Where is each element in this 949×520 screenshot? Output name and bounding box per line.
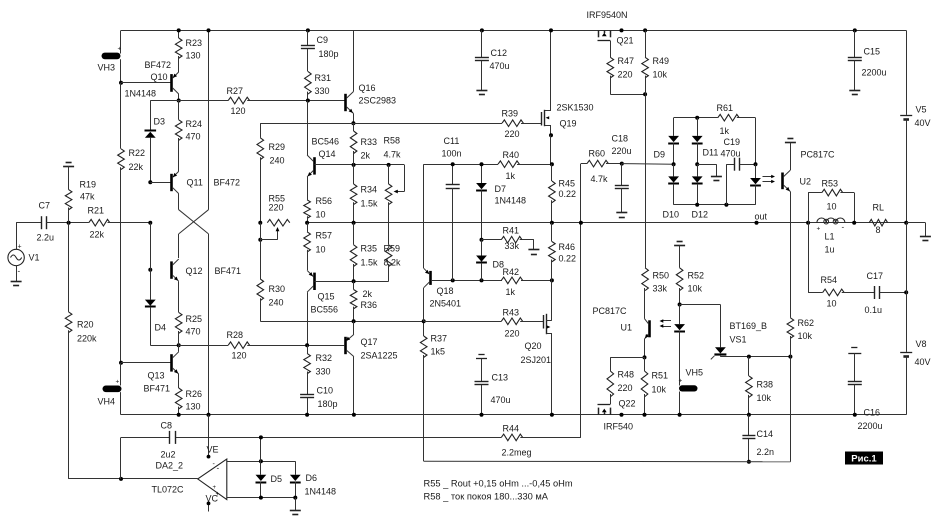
- svg-text:VS1: VS1: [730, 335, 747, 345]
- diode D5: [260, 461, 262, 475]
- node dot bottom rail x208: [207, 413, 211, 417]
- wire op-amp minus input row: [227, 461, 295, 463]
- svg-text:470u: 470u: [491, 395, 511, 405]
- svg-text:2k: 2k: [363, 289, 373, 299]
- resistor R24 470: [175, 120, 182, 140]
- svg-text:VE: VE: [207, 445, 219, 455]
- wire R52 to LED node: [679, 288, 681, 305]
- wire R27 row: [150, 100, 228, 102]
- svg-text:240: 240: [269, 298, 284, 308]
- node dot R47 R49 junction: [643, 92, 647, 96]
- wire bridge bottom row: [674, 204, 756, 206]
- wire VH4 to bottom rail corner: [120, 392, 122, 415]
- svg-text:R47: R47: [618, 56, 635, 66]
- wire R21 to base line: [108, 222, 151, 224]
- svg-text:2200u: 2200u: [858, 421, 883, 431]
- node dot R38 top: [747, 355, 751, 359]
- capacitor C9 180p: [306, 28, 310, 32]
- resistor R39 220: [502, 120, 523, 127]
- wire mid output rail: [307, 222, 925, 224]
- svg-text:220: 220: [618, 70, 633, 80]
- node dot R26 bottom rail: [177, 413, 181, 417]
- svg-text:VH3: VH3: [98, 63, 116, 73]
- wire R30 to y321 row: [260, 298, 262, 321]
- wire D5 line to C8 row: [260, 437, 262, 461]
- resistor R20 220k: [68, 223, 70, 312]
- svg-text:22k: 22k: [129, 162, 144, 172]
- svg-text:2u2: 2u2: [161, 450, 176, 460]
- svg-text:Q22: Q22: [619, 399, 636, 409]
- node dot C11 bottom: [451, 278, 455, 282]
- node dot rail x621: [620, 28, 624, 32]
- resistor R34 1.5k: [350, 184, 357, 205]
- svg-text:R54: R54: [821, 275, 838, 285]
- node dot D11 top: [695, 116, 699, 120]
- svg-text:U2: U2: [800, 177, 812, 187]
- mosfet Q20 2SJ201: [543, 315, 545, 329]
- resistor R28 120: [228, 342, 249, 349]
- node dot R56 R57 output-row start: [305, 221, 309, 225]
- wire R43 row: [424, 321, 502, 323]
- svg-text:PC817C: PC817C: [593, 306, 628, 316]
- svg-text:IRF9540N: IRF9540N: [587, 10, 628, 20]
- svg-text:C9: C9: [317, 35, 329, 45]
- ground right of RL: [906, 222, 925, 224]
- svg-text:V1: V1: [29, 253, 40, 263]
- pin VE: [208, 415, 210, 457]
- resistor R19 47k: [65, 190, 72, 210]
- svg-text:R37: R37: [431, 334, 448, 344]
- svg-text:8.2k: 8.2k: [384, 258, 402, 268]
- svg-text:10k: 10k: [798, 331, 813, 341]
- node dot Q12 base: [148, 268, 152, 272]
- capacitor C10 180p: [300, 394, 314, 396]
- resistor R61 1k: [718, 114, 739, 121]
- svg-text:R58 _ ток покоя 180...330 мА: R58 _ ток покоя 180...330 мА: [424, 492, 549, 502]
- wire crossing X right diagonal: [179, 210, 209, 234]
- svg-text:+: +: [18, 243, 22, 250]
- svg-text:Q12: Q12: [186, 266, 203, 276]
- svg-text:1k: 1k: [506, 171, 516, 181]
- svg-text:R50: R50: [653, 271, 670, 281]
- node dot C11 top: [451, 162, 455, 166]
- svg-text:40V: 40V: [915, 118, 931, 128]
- svg-text:C17: C17: [867, 271, 884, 281]
- LED VH5: [679, 385, 698, 391]
- resistor R38 10k: [748, 357, 750, 376]
- svg-text:1N4148: 1N4148: [305, 487, 337, 497]
- resistor R40 1k: [498, 161, 519, 168]
- phototransistor U2 PC817C: [781, 173, 784, 190]
- resistor R57 10: [304, 232, 311, 252]
- node dot C10 bottom rail: [305, 413, 309, 417]
- svg-text:10: 10: [827, 299, 837, 309]
- svg-text:R58: R58: [384, 136, 401, 146]
- svg-text:R45: R45: [559, 179, 576, 189]
- svg-text:R42: R42: [503, 267, 520, 277]
- svg-text:C10: C10: [317, 386, 334, 396]
- ground above R52: [677, 241, 683, 243]
- wire C7 to node: [46, 222, 89, 224]
- capacitor C19 470u: [726, 164, 728, 205]
- svg-text:120: 120: [232, 351, 247, 361]
- node dot U1 emitter R51: [643, 355, 647, 359]
- diode D3 1N4148: [150, 101, 152, 131]
- svg-text:R20: R20: [77, 320, 94, 330]
- resistor R43 220: [501, 318, 522, 325]
- diode D12: [697, 164, 699, 176]
- svg-text:2N5401: 2N5401: [430, 299, 462, 309]
- wire Q18 base row: [431, 280, 502, 282]
- svg-text:D7: D7: [495, 184, 507, 194]
- diode D8: [481, 240, 483, 256]
- wire R31 to Q14 collector: [307, 101, 309, 156]
- node dot C8 row D5: [259, 435, 263, 439]
- svg-text:R48: R48: [618, 370, 635, 380]
- wire R54 C17 row: [808, 223, 810, 293]
- capacitor C8 2u2: [169, 431, 171, 444]
- svg-text:IRF540: IRF540: [604, 422, 634, 432]
- svg-text:R39: R39: [502, 109, 519, 119]
- resistor R46 0.22: [549, 242, 556, 262]
- svg-text:Q16: Q16: [359, 83, 376, 93]
- resistor R31 330: [307, 49, 309, 72]
- svg-text:180p: 180p: [319, 49, 339, 59]
- node dot C17 V8 line: [904, 290, 908, 294]
- node dot R62 bottom VS1 row: [788, 355, 792, 359]
- svg-text:BF472: BF472: [145, 60, 172, 70]
- svg-text:220: 220: [269, 203, 284, 213]
- svg-text:100n: 100n: [442, 149, 462, 159]
- svg-text:R21: R21: [88, 206, 105, 216]
- svg-text:R44: R44: [503, 424, 520, 434]
- opto arrows U1: [662, 320, 672, 322]
- svg-text:BF472: BF472: [214, 178, 241, 188]
- svg-text:D3: D3: [154, 117, 166, 127]
- svg-text:120: 120: [231, 106, 246, 116]
- transistor Q15 BC556: [313, 273, 316, 290]
- node dot C13 bottom rail: [480, 413, 484, 417]
- node dot C19 right U2-LED top: [754, 162, 758, 166]
- svg-text:10k: 10k: [688, 284, 703, 294]
- svg-text:R41: R41: [503, 226, 520, 236]
- svg-text:2.2u: 2.2u: [37, 233, 55, 243]
- svg-text:R46: R46: [559, 242, 576, 252]
- wire R59 corner: [388, 264, 390, 281]
- ground stub D11: [697, 164, 716, 166]
- node dot L1 right R53: [852, 221, 856, 225]
- resistor R44 2.2meg: [501, 434, 522, 441]
- svg-text:BF471: BF471: [144, 384, 171, 394]
- svg-text:470: 470: [186, 327, 201, 337]
- node dot R35 R36 Q15-base: [352, 279, 356, 283]
- transistor Q13 BF471: [170, 354, 173, 371]
- LED VH3: [120, 30, 122, 53]
- svg-text:+: +: [213, 485, 217, 491]
- wire R28 row: [179, 345, 229, 347]
- source V1: [8, 249, 24, 265]
- svg-text:Q11: Q11: [187, 178, 203, 188]
- svg-text:R36: R36: [361, 300, 378, 310]
- svg-text:1.5k: 1.5k: [361, 199, 379, 209]
- battery V8 40V: [906, 223, 908, 293]
- wire R39 row to Q19 gate: [260, 123, 502, 125]
- LED of optocoupler U1: [679, 305, 681, 325]
- node dot R21 base-line junction: [148, 221, 152, 225]
- svg-text:R62: R62: [798, 318, 815, 328]
- LED of optocoupler U2: [755, 164, 757, 178]
- svg-text:R61: R61: [717, 103, 734, 113]
- node dot R23 top: [177, 28, 181, 32]
- phototransistor U1 PC817C: [648, 320, 651, 337]
- svg-text:R55 _ Rout +0,15 oHm ...-0,45: R55 _ Rout +0,15 oHm ...-0,45 oHm: [424, 479, 573, 489]
- diode D9: [673, 118, 675, 136]
- node dot VH5 bottom rail: [678, 413, 682, 417]
- node dot op-amp output C8 line: [119, 477, 123, 481]
- svg-text:D11: D11: [703, 148, 719, 158]
- svg-text:C15: C15: [864, 47, 881, 57]
- svg-text:R43: R43: [503, 308, 520, 318]
- svg-text:BF471: BF471: [215, 266, 242, 276]
- svg-text:470u: 470u: [490, 61, 510, 71]
- svg-text:220u: 220u: [612, 146, 632, 156]
- wire V1 to C7: [16, 223, 18, 250]
- node dot Q10 emitter R24 R27: [177, 99, 181, 103]
- svg-text:R38: R38: [757, 380, 774, 390]
- svg-text:2.2meg: 2.2meg: [502, 448, 532, 458]
- svg-text:VH5: VH5: [686, 368, 704, 378]
- svg-text:10: 10: [316, 210, 326, 220]
- node dot Q10 base: [119, 81, 123, 85]
- svg-text:D4: D4: [155, 323, 167, 333]
- resistor R35 1.5k: [350, 245, 357, 267]
- wire R41 row: [482, 239, 502, 241]
- node dot Q19 drain rail: [549, 28, 553, 32]
- wire Q12 collector: [178, 234, 180, 258]
- svg-text:R33: R33: [361, 137, 378, 147]
- svg-text:1k: 1k: [506, 287, 516, 297]
- resistor R54 10: [823, 289, 844, 296]
- node dot D5 top: [259, 459, 263, 463]
- wire Q14 base row: [315, 164, 405, 166]
- diode D11: [697, 118, 699, 136]
- potentiometer R55 220: [267, 219, 290, 226]
- node dot D7 top: [480, 162, 484, 166]
- node dot R31 bottom R27: [306, 99, 310, 103]
- svg-text:220: 220: [618, 383, 633, 393]
- capacitor C14 2.2n: [748, 415, 750, 436]
- svg-text:220k: 220k: [77, 334, 97, 344]
- svg-text:22k: 22k: [90, 230, 105, 240]
- resistor R23 130: [178, 30, 180, 38]
- transistor Q11 BF472: [170, 174, 173, 191]
- resistor R41 33k: [501, 236, 522, 243]
- node dot rail x208: [207, 28, 211, 32]
- svg-text:C19: C19: [724, 137, 741, 147]
- wire bridge top row: [674, 117, 718, 119]
- node dot C14 bottom feedback row: [747, 460, 751, 464]
- capacitor C15 2200u: [853, 28, 857, 32]
- node dot rail x621 bottom: [620, 413, 624, 417]
- wire top positive rail: [121, 30, 906, 32]
- svg-text:PC817C: PC817C: [801, 150, 836, 160]
- wire R20 to op-amp output: [68, 330, 70, 479]
- diode D7 1N4148: [481, 164, 483, 183]
- wire R42-node to Q20 drain: [551, 280, 553, 320]
- svg-text:8: 8: [876, 225, 881, 235]
- capacitor C17 0.1u: [874, 286, 876, 299]
- thyristor VS1 BT169_B: [715, 347, 726, 353]
- node dot D7 R41: [480, 238, 484, 242]
- svg-text:C11: C11: [444, 136, 460, 146]
- resistor R51 10k: [644, 357, 646, 371]
- svg-text:+: +: [817, 226, 821, 233]
- resistor R52 10k: [676, 268, 683, 291]
- node dot D12 bottom: [695, 203, 699, 207]
- svg-text:D12: D12: [692, 210, 709, 220]
- ground below V1: [16, 266, 18, 282]
- svg-text:470u: 470u: [721, 149, 741, 159]
- resistor R33 2k: [350, 131, 357, 154]
- svg-text:-: -: [217, 464, 220, 473]
- svg-text:0.22: 0.22: [559, 254, 577, 264]
- svg-text:1.5k: 1.5k: [361, 258, 379, 268]
- wire C8 R44 row: [121, 437, 169, 439]
- mosfet Q22 IRF540: [610, 394, 612, 404]
- transistor Q14 BC546: [313, 157, 316, 174]
- node dot R38 bottom rail: [747, 413, 751, 417]
- svg-text:RL: RL: [873, 203, 885, 213]
- svg-text:C7: C7: [39, 201, 51, 211]
- ground above R19: [66, 162, 72, 164]
- wire R40 row: [424, 164, 498, 166]
- svg-text:VC: VC: [206, 494, 219, 504]
- wire R55 wiper: [277, 230, 279, 240]
- node dot Q17 bottom rail: [352, 413, 356, 417]
- transistor Q18 2N5401: [429, 271, 432, 285]
- wire long vertical x208: [208, 30, 210, 209]
- transistor Q17 2SA1225: [344, 337, 347, 354]
- svg-text:130: 130: [186, 402, 201, 412]
- node dot D4 R25 R28 Q13: [177, 343, 181, 347]
- svg-text:C13: C13: [492, 373, 509, 383]
- wire Q15 base row: [315, 281, 389, 283]
- node dot R19 bottom: [67, 221, 71, 225]
- svg-text:R40: R40: [503, 150, 520, 160]
- svg-text:D6: D6: [306, 473, 318, 483]
- opto arrows U2: [763, 176, 774, 178]
- svg-text:Q10: Q10: [151, 72, 168, 82]
- resistor R42 1k: [501, 277, 522, 284]
- resistor R21 22k: [89, 219, 110, 226]
- wire R58 wiper: [404, 165, 406, 192]
- node dot out: [755, 221, 759, 225]
- wire VH3 to Q10 base node: [120, 59, 122, 83]
- svg-text:D5: D5: [271, 474, 283, 484]
- node dot R34 R35 output row: [352, 221, 356, 225]
- svg-text:R60: R60: [589, 149, 606, 159]
- svg-text:U1: U1: [621, 323, 633, 333]
- svg-text:R29: R29: [269, 142, 286, 152]
- wire C8 left leg: [120, 437, 122, 479]
- node dot D11 mid: [695, 162, 699, 166]
- svg-text:330: 330: [315, 86, 330, 96]
- svg-text:10: 10: [316, 245, 326, 255]
- svg-text:Рис.1: Рис.1: [851, 454, 877, 465]
- svg-text:R28: R28: [227, 330, 244, 340]
- resistor R37 1k5: [420, 336, 427, 357]
- svg-text:220: 220: [505, 129, 520, 139]
- node dot D8 bottom: [480, 278, 484, 282]
- mosfet Q21 IRF9540N: [598, 30, 600, 37]
- svg-text:L1: L1: [825, 232, 835, 242]
- svg-text:Q18: Q18: [437, 286, 454, 296]
- svg-text:-: -: [842, 223, 845, 232]
- svg-text:10k: 10k: [653, 70, 668, 80]
- svg-text:Q21: Q21: [617, 36, 634, 46]
- svg-text:240: 240: [270, 156, 285, 166]
- svg-text:33k: 33k: [505, 241, 520, 251]
- capacitor C11 100n: [452, 164, 454, 185]
- svg-text:TL072C: TL072C: [152, 485, 185, 495]
- svg-text:C8: C8: [161, 421, 173, 431]
- svg-text:0.22: 0.22: [559, 189, 577, 199]
- svg-text:R31: R31: [315, 73, 332, 83]
- capacitor C7 2.2u: [41, 216, 43, 229]
- svg-text:C16: C16: [864, 408, 881, 418]
- pin VC: [208, 503, 210, 511]
- resistor R47 220: [610, 41, 612, 58]
- capacitor C18 220u: [620, 162, 624, 166]
- node dot R55 left: [258, 221, 262, 225]
- node dot D9 mid: [672, 162, 676, 166]
- svg-text:R57: R57: [316, 231, 333, 241]
- wire Q19 source down: [550, 135, 552, 164]
- svg-text:220: 220: [505, 329, 520, 339]
- node dot R45 output row: [550, 221, 554, 225]
- transistor Q16 2SC2983: [344, 94, 347, 111]
- node dot D6 bottom: [293, 496, 297, 500]
- svg-text:1k: 1k: [720, 126, 730, 136]
- svg-text:BT169_B: BT169_B: [730, 321, 768, 331]
- wire R44 right corner up: [520, 437, 581, 439]
- svg-text:R51: R51: [652, 371, 669, 381]
- resistor R29 240: [260, 123, 262, 138]
- node dot R42 right: [550, 278, 554, 282]
- svg-text:R56: R56: [316, 196, 333, 206]
- capacitor C13 470u: [478, 354, 484, 356]
- node dot R33 R34: [352, 163, 356, 167]
- resistor R49 10k: [645, 30, 647, 57]
- resistor R27 120: [228, 97, 249, 104]
- svg-text:Q15: Q15: [318, 292, 335, 302]
- svg-text:R35: R35: [361, 244, 378, 254]
- wire op-amp output: [69, 478, 198, 480]
- svg-text:2.2n: 2.2n: [757, 447, 775, 457]
- svg-text:1u: 1u: [825, 245, 835, 255]
- node dot out V5 V8 junction: [904, 221, 908, 225]
- wire C18 node to bridge: [622, 163, 674, 166]
- node dot Q19 source: [549, 133, 553, 137]
- svg-text:330: 330: [316, 367, 331, 377]
- node dot R55 wiper return: [258, 238, 262, 242]
- svg-text:D10: D10: [663, 210, 680, 220]
- svg-text:R27: R27: [227, 86, 244, 96]
- svg-text:R32: R32: [316, 353, 333, 363]
- svg-text:R19: R19: [80, 180, 97, 190]
- figure label box: [845, 452, 883, 465]
- resistor R62 10k: [787, 318, 794, 338]
